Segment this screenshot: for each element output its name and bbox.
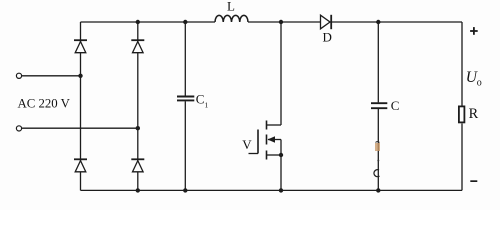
svg-text:L: L — [227, 0, 235, 14]
svg-text:R: R — [469, 106, 479, 122]
svg-text:D: D — [323, 30, 332, 45]
svg-text:V: V — [242, 137, 252, 152]
svg-text:C: C — [391, 98, 400, 113]
svg-text:o: o — [477, 78, 482, 89]
svg-text:AC 220 V: AC 220 V — [18, 96, 71, 110]
